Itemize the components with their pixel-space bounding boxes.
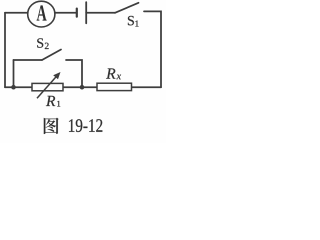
caption hanzi tu (figure) drawn as vector path xyxy=(44,118,59,134)
caption numerals 19-12 xyxy=(69,119,102,132)
wire between R1 and Rx xyxy=(63,86,97,88)
label R1 xyxy=(46,96,55,106)
label S2 xyxy=(37,38,43,47)
wire Rx to bottom-right corner xyxy=(132,86,162,88)
switch S2 blade xyxy=(42,50,61,61)
wire battery to switch S1 left contact xyxy=(86,12,115,14)
ammeter A xyxy=(28,1,55,27)
rheostat R1 box xyxy=(32,83,63,90)
wire S2 right contact to branch corner and down xyxy=(66,60,82,87)
wire bottom-left segment to R1 xyxy=(5,86,32,88)
wire S1 right contact to top-right corner and down right side xyxy=(144,11,161,87)
wire S2 branch top-left horizontal to switch contact xyxy=(14,59,43,61)
label Rx xyxy=(106,68,115,78)
wire S2 branch left vertical xyxy=(13,60,15,87)
battery cell: long positive plate xyxy=(85,2,87,23)
wire top-left horizontal from left corner to ammeter xyxy=(5,12,28,14)
battery cell: short negative plate xyxy=(76,9,78,17)
wire ammeter to battery xyxy=(55,12,77,14)
wire left vertical side xyxy=(4,13,6,87)
node left junction dot xyxy=(11,85,16,90)
resistor Rx box xyxy=(97,83,132,90)
label S1 xyxy=(128,16,134,25)
switch S1 blade xyxy=(115,3,139,13)
node right junction dot xyxy=(80,85,85,90)
rheostat R1 arrow xyxy=(37,72,61,98)
